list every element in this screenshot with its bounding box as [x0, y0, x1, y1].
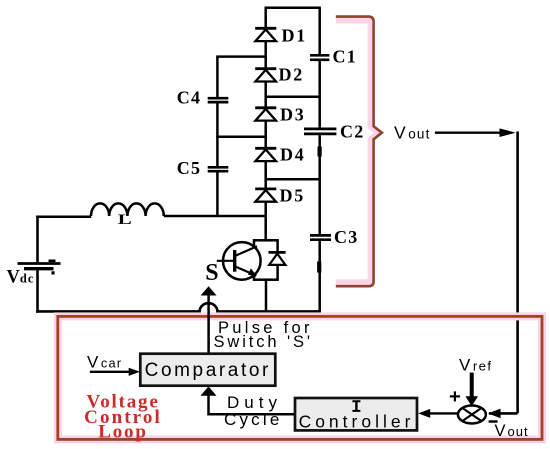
Vref arrow line — [470, 373, 474, 397]
transistor base bar — [233, 250, 236, 272]
diode D1 — [255, 28, 276, 41]
svg-text:D2: D2 — [279, 65, 305, 85]
svg-text:L: L — [118, 212, 132, 228]
wire duty cycle from I controller — [209, 395, 296, 414]
wire diode chain vertical — [264, 8, 267, 242]
pulse arrowhead — [201, 286, 217, 295]
svg-text:Vout: Vout — [394, 122, 431, 142]
battery Vdc plates — [18, 264, 61, 269]
capacitor C1 — [310, 55, 329, 60]
diode D3 — [255, 108, 276, 121]
diode D5 — [255, 189, 276, 202]
svg-text:Switch 'S': Switch 'S' — [214, 333, 314, 351]
arrowhead into I controller — [418, 409, 430, 418]
svg-text:D1: D1 — [282, 26, 308, 46]
comparator box U1 — [140, 354, 275, 386]
svg-text:C1: C1 — [333, 47, 357, 67]
Vref arrowhead — [465, 396, 478, 406]
summing junction — [458, 406, 486, 424]
label Duty Cycle — [224, 393, 283, 429]
wire sum to I controller — [429, 412, 458, 414]
arrowhead feedback into sum — [488, 409, 501, 419]
svg-text:D4: D4 — [280, 145, 306, 165]
svg-text:C4: C4 — [177, 88, 201, 108]
wire bottom horizontal with hop — [36, 303, 321, 311]
wire tap D2-D3 junction to right chain — [266, 95, 320, 98]
svg-text:D5: D5 — [280, 185, 306, 205]
svg-text:Duty: Duty — [227, 393, 282, 412]
arrowhead Vcar into comparator — [129, 368, 140, 376]
svg-text:Cycle: Cycle — [224, 410, 283, 429]
capacitor C4 — [208, 98, 229, 102]
wire feedback vertical right — [516, 132, 519, 414]
wire inductor to diode chain — [164, 215, 267, 218]
svg-text:C5: C5 — [177, 158, 201, 178]
transistor base lead — [217, 260, 235, 262]
transistor collector — [235, 246, 257, 256]
arrowhead right at feedback corner — [500, 128, 516, 137]
wire feedback into sum — [489, 412, 518, 415]
svg-text:Vdc: Vdc — [7, 268, 35, 288]
control loop red box — [58, 316, 542, 439]
diode D2 — [255, 69, 276, 82]
wire tap D1-D2 junction to left chain — [216, 55, 267, 58]
control loop red box glow — [58, 316, 542, 439]
freewheeling diode in module — [269, 252, 286, 265]
svg-text:C3: C3 — [334, 227, 358, 247]
svg-text:Vcar: Vcar — [87, 353, 122, 372]
capacitor C3 — [310, 235, 331, 239]
label plus sign — [450, 391, 460, 401]
svg-text:D3: D3 — [280, 104, 306, 124]
transistor Q circle — [223, 242, 261, 280]
svg-text:Controller: Controller — [299, 412, 415, 432]
transistor emitter arrowhead — [248, 268, 257, 276]
svg-text:Loop: Loop — [98, 422, 147, 443]
capacitor C2 — [304, 129, 336, 134]
wire residue mark lower right chain — [317, 262, 321, 273]
capacitor C5 — [208, 167, 229, 171]
label Voltage Control Loop — [84, 392, 162, 443]
wire tap D3-D4 junction to left chain — [216, 136, 267, 139]
label minus sign — [489, 420, 498, 422]
svg-text:Comparator: Comparator — [145, 360, 271, 381]
svg-text:Vref: Vref — [459, 355, 492, 374]
wire top horizontal — [265, 6, 321, 9]
wire left vertical bottom — [36, 270, 39, 313]
brace pink glow — [336, 20, 379, 282]
svg-text:C2: C2 — [340, 122, 364, 142]
svg-text:Vout: Vout — [495, 422, 529, 440]
wire top-left horizontal — [36, 215, 91, 218]
svg-text:S: S — [205, 260, 218, 286]
wire residue mark upper right chain — [318, 147, 322, 157]
wire switch bottom — [265, 280, 268, 312]
brace Vout — [336, 17, 382, 287]
switch module box — [254, 240, 278, 279]
wire Vout arrow to feedback corner — [435, 131, 512, 133]
inductor L — [91, 203, 164, 216]
battery plus mark — [49, 259, 56, 262]
diode D4 — [255, 148, 276, 161]
wire right cap chain vertical — [318, 8, 321, 312]
I controller box U2 — [295, 398, 417, 430]
transistor emitter — [235, 266, 257, 275]
label I Controller — [299, 401, 415, 431]
wire left vertical top — [36, 216, 39, 263]
wire tap D4-D5 junction to right chain — [266, 178, 320, 181]
battery minus dot — [51, 271, 54, 274]
wire left cap chain vertical — [216, 57, 219, 216]
pulse arrow line — [207, 295, 210, 353]
duty cycle arrowhead into comparator — [201, 386, 217, 395]
label Pulse for Switch 'S' — [214, 319, 314, 351]
wire Vcar arrow — [90, 371, 132, 373]
